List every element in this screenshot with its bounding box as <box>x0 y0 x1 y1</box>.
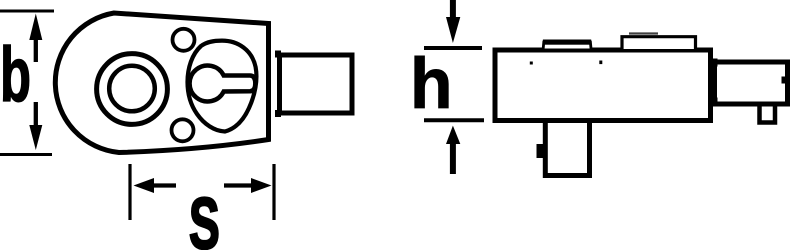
svg-text:b: b <box>0 31 31 117</box>
svg-text:h: h <box>410 43 453 123</box>
svg-text:S: S <box>189 183 220 250</box>
